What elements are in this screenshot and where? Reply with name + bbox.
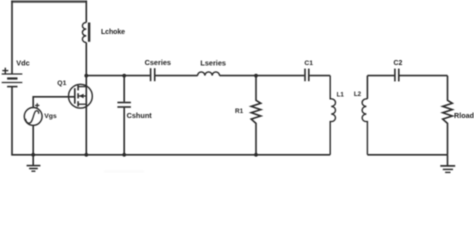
inductor Lseries bbox=[198, 72, 220, 76]
sine wave inside Vgs bbox=[26, 111, 39, 123]
wire drain-source vertical bbox=[85, 76, 87, 155]
svg-text:C1: C1 bbox=[304, 60, 313, 67]
Q1 drain, body and source stubs bbox=[78, 87, 86, 105]
battery plus sign bbox=[2, 68, 8, 74]
svg-text:Lseries: Lseries bbox=[200, 59, 226, 68]
capacitor C2 bbox=[395, 69, 399, 82]
watermark faint bar bbox=[104, 170, 144, 172]
junction dot Vgs-ground bbox=[31, 153, 35, 157]
wire main horizontal segment 2 bbox=[156, 75, 198, 77]
plus sign Vgs bbox=[35, 103, 39, 107]
resistor R1 bbox=[251, 76, 261, 155]
wire C1 to corner bbox=[310, 75, 331, 77]
svg-text:L1: L1 bbox=[337, 92, 345, 99]
Lchoke core bar bbox=[88, 23, 90, 42]
ground right bbox=[440, 155, 455, 173]
capacitor C1 bbox=[305, 69, 309, 82]
wire top rail (thick) bbox=[11, 0, 87, 2]
Q1 arrow bbox=[79, 94, 84, 98]
inductor L1 bbox=[330, 76, 335, 155]
svg-text:C2: C2 bbox=[394, 60, 403, 67]
inductor Lchoke bbox=[85, 1, 87, 23]
svg-text:Rload: Rload bbox=[454, 111, 474, 120]
wire bottom rail bbox=[11, 154, 330, 156]
wire left rail lower bbox=[11, 87, 13, 156]
junction dot drain bbox=[84, 74, 88, 78]
wire main horizontal segment 3 bbox=[220, 75, 305, 77]
junction dot Cshunt bottom bbox=[122, 153, 126, 157]
junction dot R1 top bbox=[254, 74, 258, 78]
svg-text:Vdc: Vdc bbox=[16, 59, 29, 68]
Q1 gate bar bbox=[74, 88, 76, 104]
wire right loop left side / top bbox=[366, 76, 368, 99]
ground left bbox=[27, 155, 41, 171]
svg-text:Cseries: Cseries bbox=[145, 58, 171, 67]
svg-text:L2: L2 bbox=[354, 91, 362, 98]
wire left rail upper bbox=[11, 1, 13, 74]
inductor L2 bbox=[362, 99, 367, 155]
battery Vdc bbox=[2, 74, 23, 87]
wire right loop bottom bbox=[367, 154, 447, 156]
junction dot Cshunt top bbox=[122, 74, 126, 78]
capacitor Cseries bbox=[151, 68, 155, 81]
Q1 channel segments bbox=[77, 85, 79, 106]
resistor Rload bbox=[443, 76, 453, 155]
wire right loop top right bbox=[400, 75, 448, 77]
source Vgs bbox=[32, 126, 34, 155]
wire right loop top left bbox=[367, 75, 394, 77]
capacitor Cshunt bbox=[123, 76, 125, 102]
transistor Q1 MOSFET body circle bbox=[69, 84, 93, 108]
svg-text:R1: R1 bbox=[235, 108, 244, 115]
svg-text:Cshunt: Cshunt bbox=[127, 111, 153, 120]
svg-text:Q1: Q1 bbox=[57, 80, 66, 87]
svg-text:Vgs: Vgs bbox=[44, 113, 57, 120]
junction dot R1 bottom bbox=[254, 153, 258, 157]
junction dot Q1 source-bottom bbox=[84, 153, 88, 157]
wire main horizontal segment 1 bbox=[86, 75, 150, 77]
svg-text:Lchoke: Lchoke bbox=[101, 29, 125, 36]
